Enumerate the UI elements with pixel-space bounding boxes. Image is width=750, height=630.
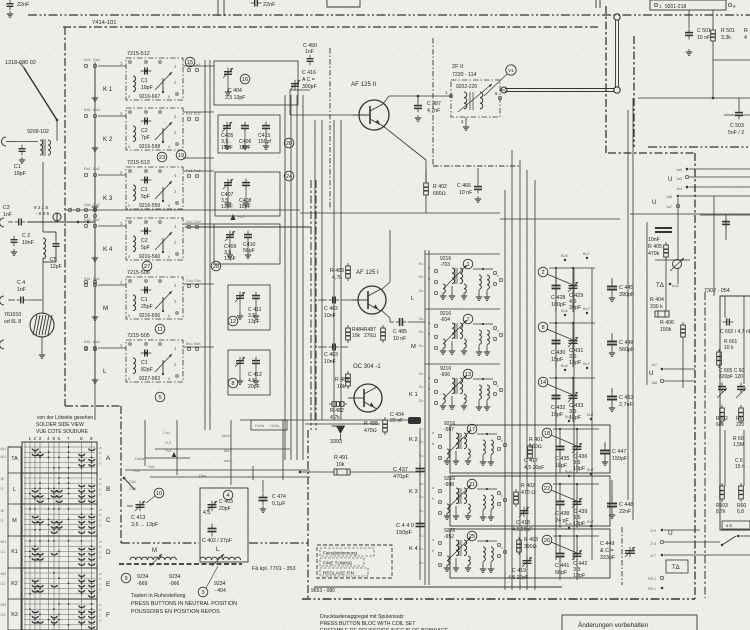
svg-text:Cxu: Cxu: [186, 279, 193, 283]
wire right y215: [700, 214, 750, 216]
svg-text:b: b: [432, 442, 434, 446]
pin U mid 2: [661, 380, 664, 383]
resistor R402b: [514, 489, 519, 507]
svg-text:14: 14: [540, 380, 546, 386]
dashed pair x311: [310, 180, 312, 430]
wire R491 left: [300, 471, 334, 473]
marker circle 14: [538, 377, 548, 387]
trimmer block C407 C408 cap 2: [242, 179, 250, 190]
svg-text:K 3: K 3: [409, 489, 418, 495]
pins left of K 4: [84, 218, 123, 227]
capgroup UKW1 top pins: [564, 259, 566, 261]
dashed enclosure left edge: [64, 27, 66, 406]
connector circle left end: [501, 87, 507, 93]
svg-text:-669: -669: [137, 581, 147, 587]
wire U lower right: [680, 195, 750, 197]
svg-text:R 401: R 401: [529, 437, 543, 443]
tuner block K2: [126, 108, 183, 150]
svg-text:b: b: [100, 577, 102, 581]
svg-text:U: U: [668, 530, 673, 537]
svg-text:C 430: C 430: [551, 350, 565, 356]
svg-text:Bu7: Bu7: [587, 468, 594, 472]
marker circle 20: [284, 138, 294, 148]
svg-text:Da1: Da1: [84, 203, 91, 207]
resistor R482 horizontal: [329, 402, 347, 407]
grid group separator y568: [22, 567, 97, 569]
marker circle V1: [506, 65, 516, 75]
wire right col v2: [743, 296, 745, 384]
module 9201-218 box: [650, 0, 726, 10]
resistor R487: [381, 325, 386, 343]
svg-text:Ea2: Ea2: [93, 218, 100, 222]
capgroup UKW2 trimmer cap: [568, 337, 578, 348]
bus rail x527 long: [526, 170, 528, 590]
pins left of M: [84, 277, 123, 286]
svg-text:C 4 4 0: C 4 4 0: [396, 523, 414, 529]
svg-text:K 1: K 1: [103, 86, 113, 93]
svg-text:56pF: 56pF: [243, 248, 255, 254]
trimmer block C405 C406 C415 cap 1 stem: [226, 132, 228, 144]
svg-text:9216-559: 9216-559: [139, 203, 160, 209]
svg-text:323pF: 323pF: [600, 555, 616, 561]
svg-text:9216-558: 9216-558: [139, 144, 160, 150]
coil squiggle M: [130, 557, 176, 560]
trimmer block C407 C408 varcap 1: [223, 179, 233, 190]
svg-text:K 2: K 2: [409, 437, 418, 443]
svg-text:C 419: C 419: [512, 568, 526, 574]
dashed enclosure top-right horizontal: [608, 152, 695, 154]
svg-text:a: a: [100, 446, 102, 450]
resistor R488: [383, 417, 388, 435]
dashed vert x622: [621, 527, 623, 585]
svg-text:-066: -066: [169, 581, 179, 587]
varcap C449: [625, 547, 635, 558]
node y222 a: [77, 221, 80, 224]
svg-text:Ea2: Ea2: [93, 340, 100, 344]
capgroup KW1 trimmer cap: [572, 443, 582, 454]
terminal box right 1: [722, 521, 750, 529]
pin Ji9: [661, 529, 664, 532]
svg-text:9227-963: 9227-963: [139, 376, 160, 382]
svg-text:C1: C1: [14, 164, 21, 170]
bus rail x505 long: [504, 190, 506, 590]
antenna rod diagonal: [24, 68, 57, 120]
svg-text:Da2: Da2: [93, 203, 100, 207]
grid column line 4: [48, 442, 50, 630]
svg-text:C 4: C 4: [17, 280, 25, 286]
svg-text:C 438: C 438: [555, 511, 569, 517]
grid group separator y630: [22, 629, 97, 630]
label FINE TUNING box: [320, 558, 364, 566]
pins left row y375: [85, 348, 88, 351]
wire C4 to lamp: [28, 299, 42, 301]
svg-text:3: 3: [39, 436, 42, 441]
antenna tip: [19, 62, 26, 70]
capacitor 10nF TA: [655, 228, 672, 232]
svg-text:R 402: R 402: [433, 184, 447, 190]
capgroup KW3 fixed cap: [556, 549, 565, 562]
grid line g2 4: [24, 529, 95, 531]
wire across diode row: [332, 419, 420, 421]
svg-text:R 402: R 402: [521, 483, 535, 489]
marker circle 5: [155, 392, 165, 402]
svg-text:C 432: C 432: [551, 405, 565, 411]
bus rail x297: [296, 95, 298, 460]
box fragment top middle: [327, 0, 360, 7]
trimmer block C409 varcap 1: [225, 231, 235, 242]
grid line g2 0: [24, 508, 95, 510]
grid line g3 1: [24, 545, 95, 547]
grid line g3 2: [24, 550, 95, 552]
svg-text:0,1µF: 0,1µF: [272, 501, 285, 507]
svg-text:C 418: C 418: [516, 520, 530, 526]
pins left row y308: [85, 281, 88, 284]
svg-text:Ea2: Ea2: [93, 167, 100, 171]
svg-text:W2: W2: [1, 572, 7, 576]
ground top-left: [7, 11, 13, 17]
svg-text:M: M: [152, 548, 157, 554]
svg-text:-604: -604: [440, 317, 450, 323]
dashed enclosure jog vertical: [120, 406, 122, 543]
ground below C2: [11, 249, 17, 255]
grid line g3 3: [24, 556, 95, 558]
trimmer block C404 cap 1 ground: [225, 89, 231, 95]
svg-text:C 483: C 483: [324, 352, 338, 358]
wire U pin1: [689, 168, 750, 170]
trimmer block C411 cap 2 ground: [253, 313, 259, 319]
svg-text:Bu7: Bu7: [583, 307, 590, 311]
dashed vertical mid x330: [329, 48, 331, 210]
svg-text:c: c: [497, 329, 499, 333]
bus dash-dot-dot right y147: [648, 146, 750, 148]
svg-text:9216-667: 9216-667: [139, 94, 160, 100]
wire R501 down: [712, 44, 714, 98]
svg-text:Ea1: Ea1: [84, 167, 91, 171]
svg-text:7215-513: 7215-513: [127, 160, 150, 166]
capgroup UKW1 stub1: [555, 268, 557, 283]
svg-text:5: 5: [158, 395, 161, 401]
svg-text:d: d: [100, 524, 102, 528]
grid group separator y442: [22, 441, 97, 443]
capgroup UKW2 stub2 down: [572, 346, 574, 367]
svg-text:13pF: 13pF: [221, 204, 233, 210]
connector socket 1: [2, 137, 7, 146]
svg-text:O: O: [1, 519, 4, 523]
resistor R402 top: [424, 180, 429, 198]
wire C503 top right: [724, 114, 750, 116]
dashed enclosure inner left edge: [307, 430, 309, 599]
svg-text:d: d: [100, 462, 102, 466]
svg-text:C 448: C 448: [619, 340, 633, 346]
svg-text:1nF: 1nF: [305, 49, 314, 55]
svg-text:-952: -952: [444, 534, 454, 540]
wire C474 up: [262, 480, 264, 492]
svg-text:6: 6: [58, 436, 61, 441]
node R491: [299, 471, 302, 474]
wire socket3 to C4: [8, 299, 15, 301]
capgroup KW3 trimmer cap: [572, 550, 582, 561]
grid line g0 2: [24, 456, 95, 458]
bandfilter 9216-604: [428, 311, 502, 355]
svg-text:C2: C2: [141, 128, 148, 134]
svg-text:U: U: [649, 370, 653, 377]
grid column numbers: [29, 436, 94, 441]
ground K 1 pins: [92, 95, 98, 101]
svg-text:K 1: K 1: [409, 392, 418, 398]
svg-text:R 405: R 405: [648, 244, 662, 250]
svg-text:O: O: [1, 487, 4, 491]
wire L pin rail: [94, 348, 96, 380]
svg-text:F: F: [106, 612, 110, 619]
svg-text:Gc2: Gc2: [194, 220, 201, 224]
svg-text:100pF: 100pF: [551, 302, 567, 308]
svg-text:K 3: K 3: [103, 195, 113, 202]
resistor R485: [346, 371, 351, 389]
bandfilter box 2FII: [451, 80, 500, 117]
grid line g4 2: [24, 582, 95, 584]
row box K4 bandfilter: [450, 529, 610, 578]
svg-text:10 k: 10 k: [724, 345, 734, 351]
svg-text:b: b: [100, 482, 102, 486]
wire K 3 pin rail: [94, 175, 96, 207]
rail x592 long: [591, 268, 593, 560]
capacitor C446 lead up: [611, 333, 613, 337]
capgroup UKW3 trimmer cap: [568, 392, 578, 403]
svg-text:470k: 470k: [648, 251, 660, 257]
svg-text:AF 125 I: AF 125 I: [356, 270, 379, 276]
marker circle 24: [284, 171, 294, 181]
bus rail x210: [209, 60, 211, 430]
svg-text:56pF: 56pF: [555, 570, 568, 576]
pin Ji7: [661, 554, 664, 557]
wire C5 stub top: [55, 232, 57, 240]
svg-text:25: 25: [469, 534, 475, 540]
tuner block K3 7215-513: [126, 160, 183, 209]
wire U bottom 2: [664, 541, 720, 543]
capgroup UKW3 top rail: [549, 377, 595, 379]
wire from 9201 pin to R501: [712, 10, 714, 28]
svg-text:13pF: 13pF: [224, 256, 236, 262]
terminal box right 2: [722, 531, 750, 539]
svg-text:c: c: [501, 439, 503, 443]
svg-text:C 437: C 437: [393, 467, 408, 473]
svg-text:Cu4: Cu4: [163, 431, 170, 435]
ground 2FII: [463, 124, 469, 130]
resistor R501: [711, 27, 716, 44]
svg-text:3: 3: [201, 590, 204, 596]
svg-text:C 417: C 417: [524, 458, 538, 464]
bandfilter coil 2: [480, 92, 483, 109]
wire K 1 pin rail: [94, 66, 96, 98]
node antenna junction: [56, 119, 59, 122]
svg-text:Ja8: Ja8: [666, 195, 672, 199]
wire horizontal y219: [500, 218, 620, 220]
dashed vertical at x606: [605, 6, 607, 153]
capgroup KW1 top pins: [568, 420, 570, 422]
Aenderungen vorbehalten box: [562, 615, 697, 630]
grid group separator y599: [22, 598, 97, 600]
trimmer block C411 cap 2 stem: [255, 302, 257, 314]
wire row M to trimmer block: [183, 283, 214, 285]
svg-text:C 449: C 449: [600, 541, 614, 547]
capgroup KW2 pointer: [551, 490, 577, 501]
wire lamp down: [41, 336, 43, 352]
svg-text:10 nF: 10 nF: [459, 190, 472, 196]
svg-text:C 441: C 441: [555, 563, 569, 569]
pins left of L: [84, 340, 123, 349]
capgroup UKW2 pointer: [547, 329, 573, 340]
svg-text:Eu: Eu: [419, 534, 423, 538]
svg-text:O,4: O,4: [165, 441, 171, 445]
capacitor C445: [607, 281, 617, 296]
svg-text:a: a: [100, 508, 102, 512]
bus rail x315: [314, 120, 316, 420]
svg-text:C 402 / 27pF: C 402 / 27pF: [202, 538, 232, 544]
svg-text:1nF: 1nF: [3, 212, 12, 218]
wire into K 4 block: [98, 225, 126, 227]
svg-text:150pf: 150pf: [258, 139, 272, 145]
svg-text:10k: 10k: [336, 462, 345, 468]
svg-text:C 445: C 445: [619, 285, 633, 291]
capgroup UKW1 stub2: [572, 268, 574, 283]
ground below C487: [415, 115, 421, 121]
wire C5 stub bottom: [55, 250, 57, 262]
svg-text:12: 12: [230, 319, 236, 325]
grid line g5 0: [24, 603, 95, 605]
trimmer block C411 varcap 1: [235, 292, 245, 303]
capacitor C440: [416, 519, 425, 532]
dashed enclosure jog horizontal: [65, 405, 121, 407]
pushbutton grid frame: [22, 442, 97, 630]
ground below C466: [475, 196, 481, 202]
svg-text:470 Ω: 470 Ω: [521, 490, 535, 496]
svg-text:-703: -703: [440, 262, 450, 268]
bus rail x341: [340, 120, 342, 420]
bus rail x512 long: [511, 150, 513, 590]
capacitor C2 10nF: [11, 236, 18, 247]
diode TA: [673, 260, 682, 269]
svg-text:9653 - 080: 9653 - 080: [311, 588, 335, 594]
wire row K1 to trimmer block: [183, 65, 214, 67]
svg-text:18pF: 18pF: [555, 463, 568, 469]
svg-text:AU: AU: [1, 447, 7, 451]
grid line g4 1: [24, 577, 95, 579]
bus rail x429 long: [428, 250, 430, 585]
wire into K 2 block: [98, 115, 126, 117]
trimmer block C407 C408 cap 1 ground: [225, 200, 231, 206]
svg-text:8,7k: 8,7k: [716, 509, 726, 515]
svg-text:W: W: [1, 509, 5, 513]
trimmer block C412 varcap 1: [235, 357, 245, 368]
svg-text:Tv4: Tv4: [165, 449, 171, 453]
svg-text:Au8: Au8: [672, 284, 679, 288]
svg-text:22nF: 22nF: [619, 509, 632, 515]
trimmer block C404: [214, 61, 298, 105]
svg-text:4,7nF: 4,7nF: [427, 108, 440, 114]
grid line g4 0: [24, 572, 95, 574]
svg-text:7414-101: 7414-101: [92, 20, 117, 26]
resistor R403: [517, 537, 522, 555]
wire U bottom 3: [664, 554, 750, 556]
svg-text:22nF: 22nF: [263, 2, 276, 8]
svg-text:5: 5: [53, 436, 56, 441]
wire y477 horizontal: [150, 476, 310, 478]
vert x628: [627, 110, 629, 500]
resistor R601: [717, 349, 722, 368]
capgroup KW2 trimmer cap: [572, 498, 582, 509]
svg-text:13pF: 13pF: [248, 319, 260, 325]
grid label separator y599: [8, 598, 21, 600]
capacitor C446 gnd: [609, 350, 615, 356]
wire C485 in: [390, 321, 394, 323]
varcap C416: [290, 80, 300, 91]
wire U bottom 1: [664, 529, 700, 531]
svg-text:L: L: [103, 368, 107, 375]
svg-text:Ea1: Ea1: [84, 108, 91, 112]
capacitor C450: [307, 55, 314, 66]
wire row K3 to trimmer block: [183, 157, 214, 159]
svg-text:470pF: 470pF: [393, 474, 409, 480]
svg-text:25pF: 25pF: [141, 304, 153, 310]
trimmer block C411 cap 1 ground: [237, 313, 243, 319]
TA block frame: [646, 222, 648, 385]
svg-text:9216-656: 9216-656: [139, 313, 160, 319]
svg-text:Tasten in Ruhestellung: Tasten in Ruhestellung: [131, 593, 186, 599]
node C487: [417, 95, 420, 98]
svg-text:K2: K2: [11, 581, 18, 587]
wire R402 down: [425, 197, 427, 213]
svg-text:C 501: C 501: [697, 28, 711, 34]
wire T2 collector up: [389, 230, 391, 282]
wire R405 R404 link: [665, 257, 667, 311]
svg-text:Feinabstimmung: Feinabstimmung: [323, 551, 357, 556]
trimmer block C405 C406 C415 cap 2 stem: [244, 132, 246, 144]
svg-text:22 nF: 22 nF: [390, 418, 403, 424]
pins left of K 2: [84, 108, 123, 117]
capgroup UKW2 stub2: [572, 323, 574, 338]
stub top x600: [599, 0, 601, 8]
assembly left solid line: [299, 480, 301, 587]
svg-text:c: c: [100, 487, 102, 491]
transformer primary coil: [40, 140, 43, 155]
svg-text:7215-508: 7215-508: [127, 270, 150, 276]
svg-text:Eu: Eu: [419, 385, 423, 389]
node at R501 y98: [712, 97, 715, 100]
svg-text:B: B: [106, 486, 110, 493]
capgroup KW3 stub1: [559, 536, 561, 551]
svg-text:9201-218: 9201-218: [665, 4, 686, 10]
svg-text:Ec2: Ec2: [194, 112, 201, 116]
small box top pins: [251, 420, 287, 430]
vert x726 to box: [725, 215, 727, 240]
trimmer block C404 varcap 1: [223, 68, 233, 79]
capgroup KW1 stub2: [576, 429, 578, 444]
connector socket 2: [0, 218, 4, 227]
grid left double line: [24, 442, 26, 630]
capacitor C445 lead up: [611, 278, 613, 282]
grid label separator y568: [8, 567, 21, 569]
bus rail x291: [290, 95, 292, 460]
capacitor C447: [600, 445, 610, 460]
svg-text:Eu: Eu: [419, 399, 423, 403]
marker circle 11: [155, 324, 165, 334]
capgroup UKW3 fixed cap: [552, 391, 561, 404]
trimmer block C405 C406 C415 cap 3: [262, 122, 270, 133]
svg-text:C 485: C 485: [393, 329, 407, 335]
svg-text:Eu: Eu: [419, 262, 423, 266]
switch contact C84: [124, 478, 135, 490]
capacitor C503: [735, 109, 743, 120]
